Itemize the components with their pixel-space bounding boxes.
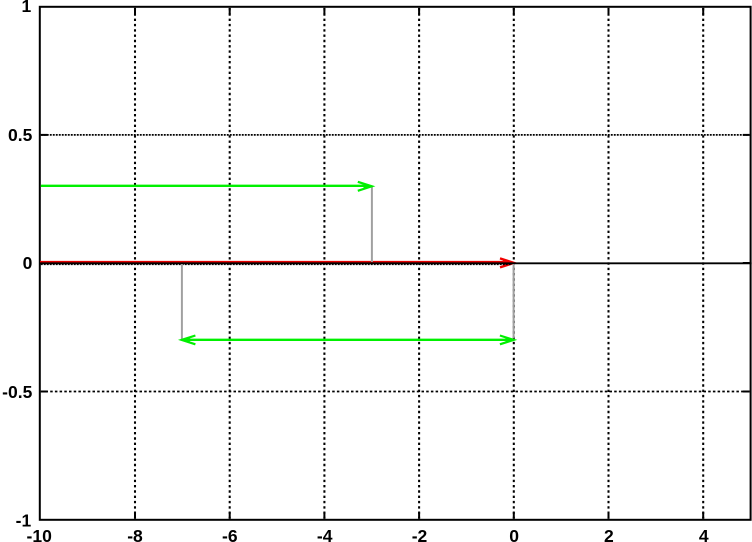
red arrow head at x=0 [503, 260, 514, 266]
tick marks bottom [135, 512, 703, 519]
svg-text:1: 1 [21, 0, 31, 16]
svg-text:0.5: 0.5 [8, 125, 33, 145]
gray connector x=-3 from y=0.3 to 0 [371, 187, 373, 263]
tick marks left [41, 135, 48, 392]
green upper arrow shaft y=0.3 [41, 185, 369, 187]
vertical dotted gridlines x=-8..4 [135, 8, 703, 519]
tick marks right [743, 135, 750, 392]
dotted gridline y=0 over red [41, 263, 512, 265]
svg-text:2: 2 [604, 526, 614, 542]
svg-text:0: 0 [509, 526, 519, 542]
svg-text:-2: -2 [412, 526, 428, 542]
tick marks top [135, 8, 703, 15]
svg-text:0: 0 [23, 253, 33, 273]
green lower arrow left head at x=-7 [182, 338, 190, 343]
svg-text:4: 4 [699, 526, 709, 542]
x axis labels [27, 526, 709, 542]
green upper arrow head at x=-3 [364, 184, 372, 189]
red arrow shaft along y=0 [40, 261, 505, 263]
green lower arrow right head at x=0 [506, 338, 514, 343]
gray connector x=-7 from y=0 to -0.3 [181, 264, 183, 340]
svg-text:-8: -8 [127, 526, 143, 542]
svg-text:-10: -10 [27, 526, 53, 542]
svg-text:-6: -6 [222, 526, 238, 542]
svg-text:-4: -4 [317, 526, 333, 542]
y axis labels [2, 0, 32, 531]
black function line y=0 [40, 262, 752, 264]
svg-text:-0.5: -0.5 [2, 382, 32, 402]
gray connector x=0 from y=0 to -0.3 [513, 264, 515, 338]
green lower double arrow shaft y=-0.3 [184, 339, 511, 341]
horizontal dotted gridlines y=0.5, 0, -0.5 [41, 135, 750, 392]
